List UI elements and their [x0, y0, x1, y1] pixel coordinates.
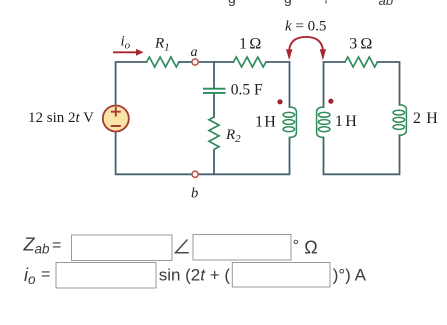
svg-text:,: ,: [324, 0, 328, 5]
svg-text:sin (2t + (: sin (2t + (: [159, 266, 231, 285]
svg-text:°: °: [293, 238, 299, 255]
wire right loop bottom: [324, 135, 400, 174]
svg-text:a: a: [191, 45, 198, 60]
svg-text:1Ω: 1Ω: [239, 35, 261, 52]
wire node a to 1ohm: [198, 61, 233, 63]
current arrow i_o: [113, 49, 144, 56]
wire 3ohm to right edge: [378, 62, 400, 105]
svg-text:1H: 1H: [335, 113, 357, 130]
svg-text:k = 0.5: k = 0.5: [285, 19, 326, 35]
dot (right coupled coil): [328, 99, 333, 104]
svg-text:3Ω: 3Ω: [349, 35, 372, 52]
svg-text:Zab: Zab: [23, 235, 51, 257]
svg-text:=: =: [41, 266, 50, 283]
svg-text:io: io: [121, 34, 131, 52]
dot (left coupled coil): [277, 99, 282, 104]
input box 4: [232, 263, 330, 288]
svg-text:g: g: [284, 0, 292, 6]
input box 3: [56, 263, 156, 289]
node a terminal: [192, 59, 198, 65]
wire capacitor branch upper: [213, 62, 215, 88]
resistor R1: [147, 57, 179, 67]
inductor 2H (coil): [393, 105, 406, 136]
resistor R2 (vertical): [209, 117, 219, 149]
inductor 1H right (coil): [317, 107, 330, 138]
svg-text:g: g: [228, 0, 236, 6]
node b terminal: [192, 171, 198, 177]
wire 1ohm to left coil top: [266, 62, 290, 107]
svg-text:ab: ab: [379, 0, 393, 8]
capacitor 0.5 F plates: [203, 89, 226, 93]
svg-text:12 sin 2t V: 12 sin 2t V: [28, 110, 94, 126]
svg-text:io: io: [24, 265, 36, 287]
wire right loop top: [324, 62, 346, 107]
wire left coil bottom to bottom-left corner: [116, 132, 290, 175]
resistor 3 ohm: [345, 57, 377, 67]
wire top-left segment to R1: [116, 62, 147, 106]
wire capacitor to R2: [213, 94, 215, 118]
angle symbol: [176, 240, 189, 253]
svg-text:0.5 F: 0.5 F: [231, 82, 263, 99]
wire R2 to bottom: [213, 150, 215, 174]
wire R1 to node a: [179, 61, 192, 63]
cut-off question text at top: [228, 0, 393, 8]
resistor 1 ohm: [234, 57, 266, 67]
svg-text:b: b: [191, 186, 198, 202]
svg-text:1H: 1H: [255, 114, 276, 131]
input box 1: [72, 235, 173, 261]
inductor 1H left (coil): [283, 107, 296, 138]
svg-text:R2: R2: [225, 127, 241, 145]
svg-text:=: =: [52, 237, 61, 254]
svg-text:R1: R1: [154, 36, 170, 54]
coupling arc k=0.5 (double arrow): [286, 37, 326, 60]
wire: left loop outline: [116, 62, 400, 174]
input box 2: [193, 235, 291, 261]
svg-text:2H: 2H: [413, 110, 438, 127]
voltage source 12 sin 2t V: [103, 106, 129, 132]
svg-text:Ω: Ω: [304, 238, 317, 258]
svg-text:)°) A: )°) A: [333, 266, 367, 285]
